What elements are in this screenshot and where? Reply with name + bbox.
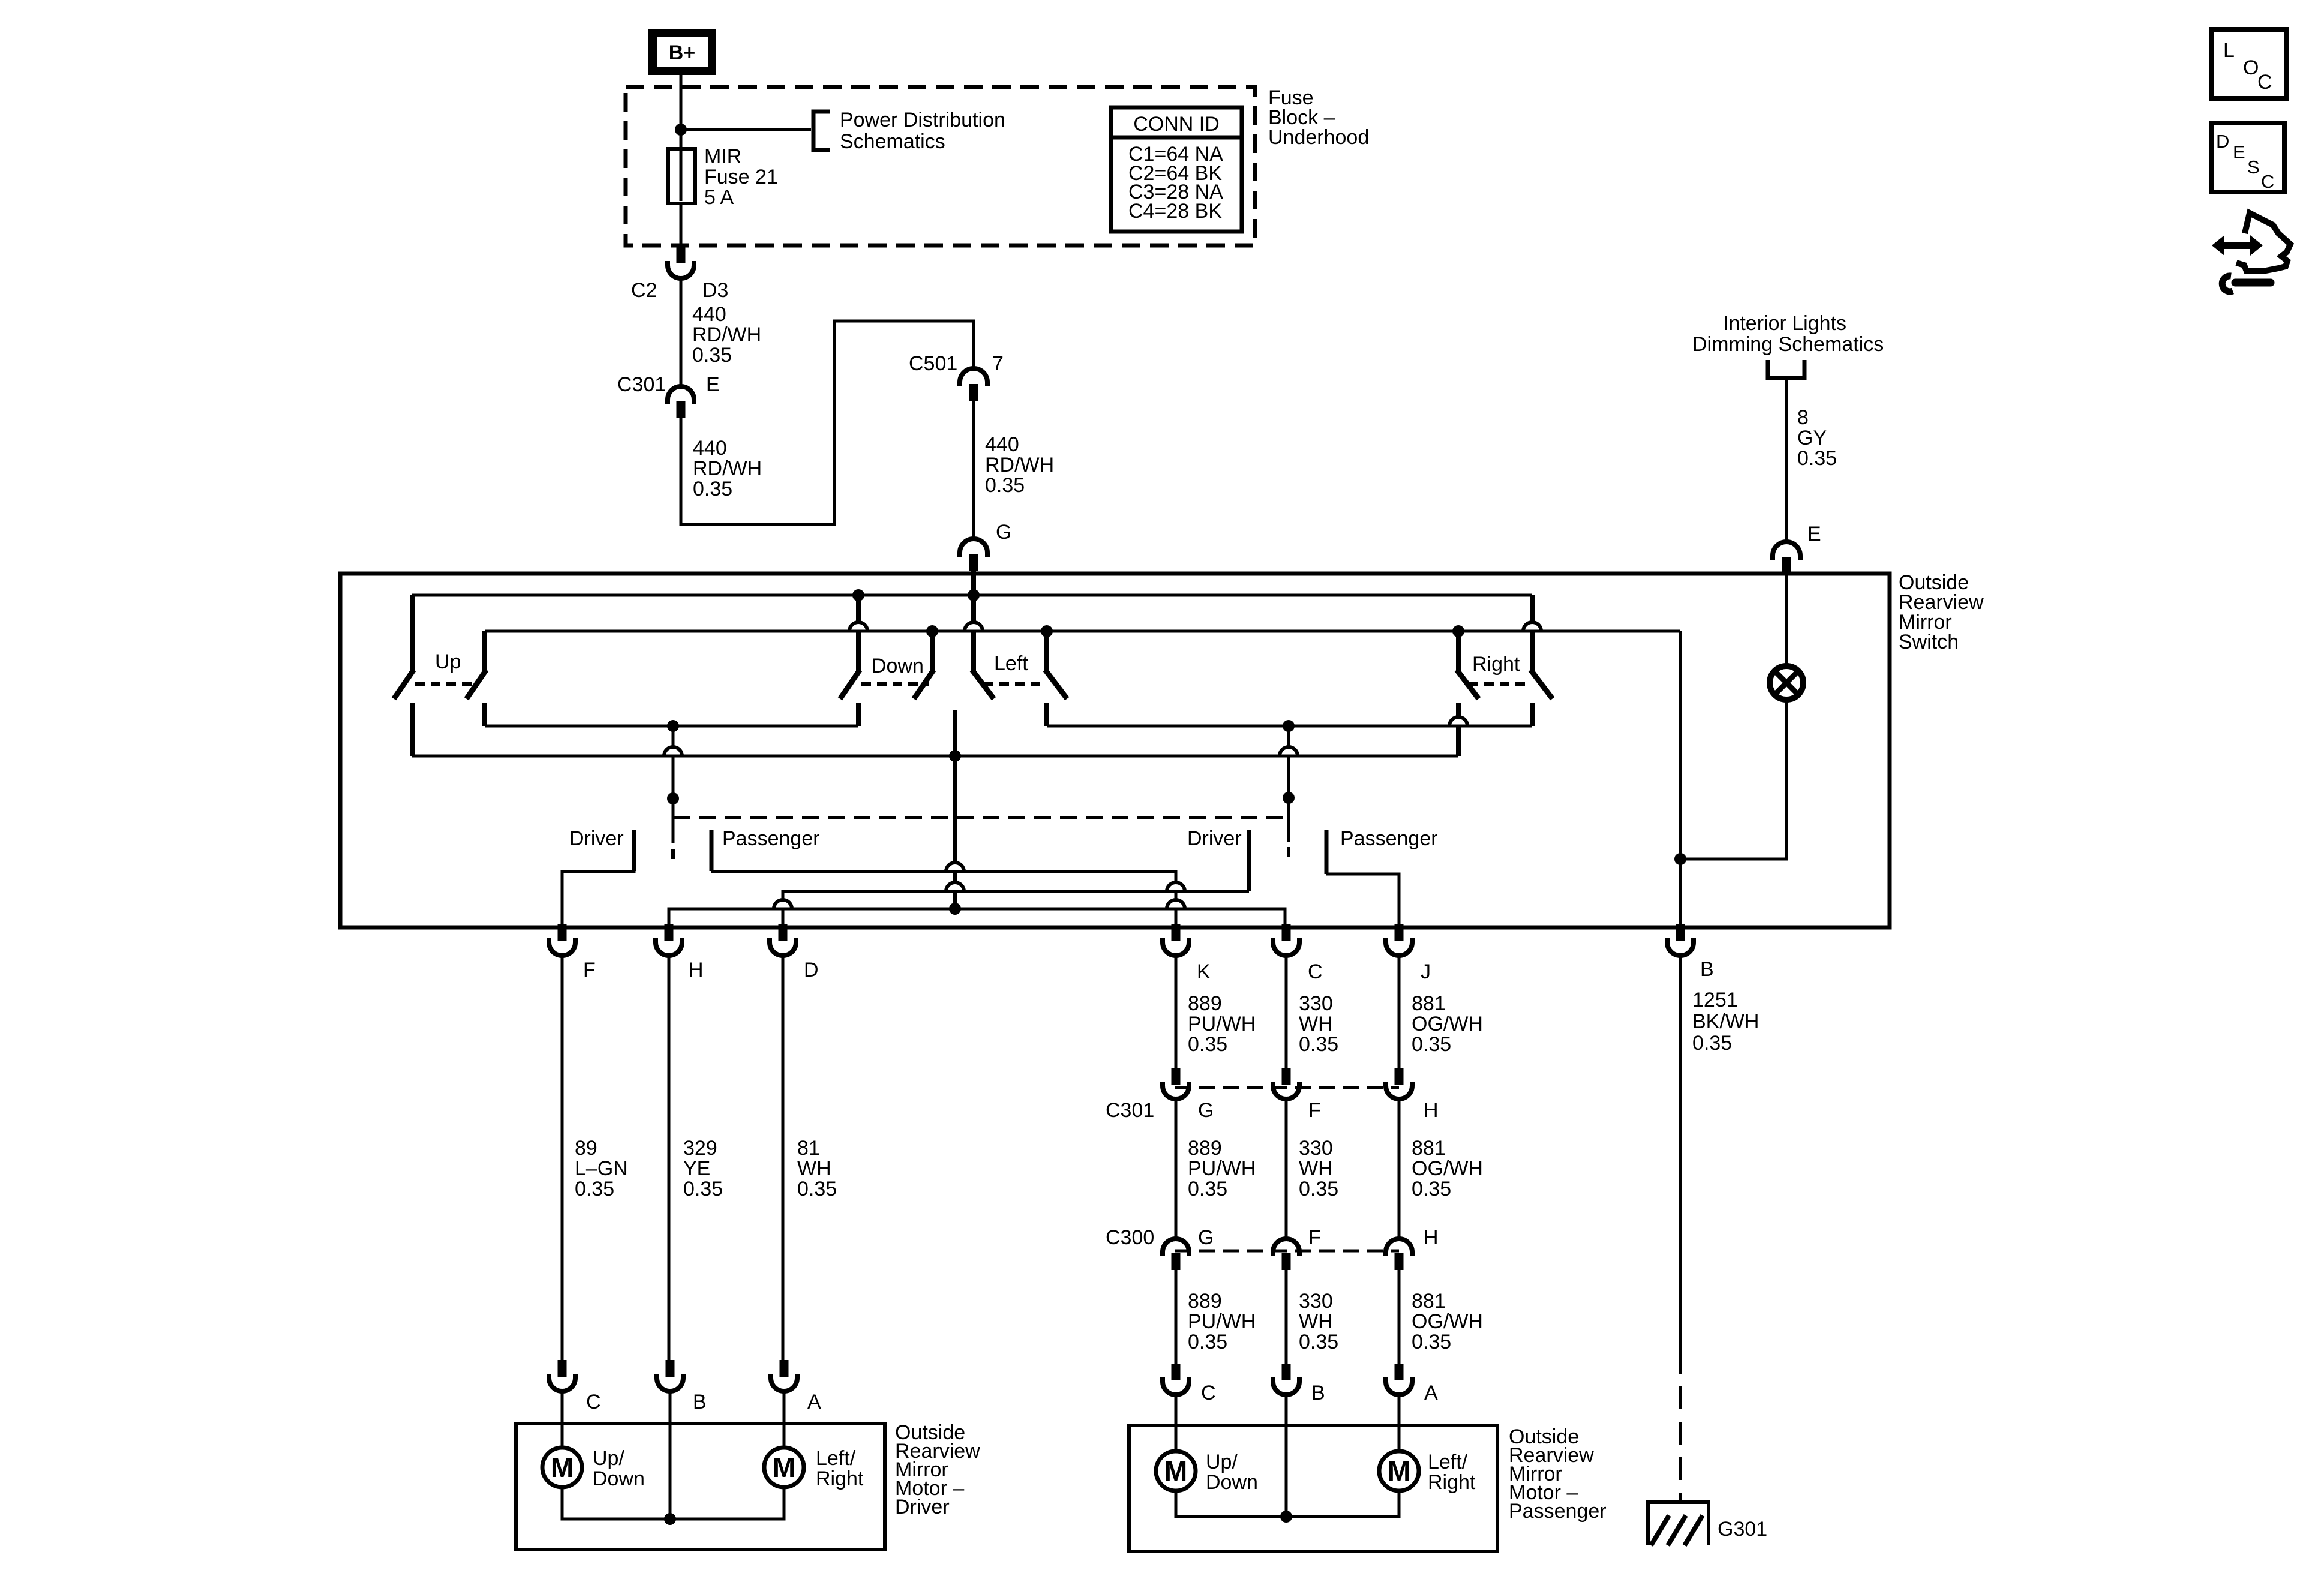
selector wiper up/down <box>664 726 682 859</box>
wire 89 L-GN (F to driver motor C) <box>561 956 564 1361</box>
svg-text:A: A <box>1424 1382 1438 1404</box>
svg-text:Right: Right <box>1472 653 1520 676</box>
node rail 5 to selector <box>1283 720 1295 732</box>
svg-text:F: F <box>1308 1099 1321 1122</box>
svg-text:0.35: 0.35 <box>1412 1331 1451 1353</box>
wire 1251 BK/WH dashed to G301 <box>1679 1351 1682 1501</box>
svg-text:E: E <box>706 373 720 396</box>
icon wrench <box>2222 276 2271 292</box>
node feed on rail 1 <box>968 589 980 601</box>
wire Driver contact (left/right) to D <box>783 830 1249 900</box>
svg-text:440: 440 <box>985 433 1019 456</box>
svg-text:S: S <box>2247 157 2260 178</box>
svg-text:C2: C2 <box>631 279 657 302</box>
node rail 3 to selector <box>667 720 679 732</box>
wire K drop <box>1167 882 1185 927</box>
label Passenger (up/down) <box>722 827 820 850</box>
label wire 440 RD/WH 0.35 (lower left) <box>693 437 762 500</box>
svg-text:881: 881 <box>1412 992 1446 1015</box>
svg-text:PU/WH: PU/WH <box>1188 1013 1256 1035</box>
switch Right left pole <box>1449 631 1477 756</box>
label pin G <box>996 521 1011 544</box>
svg-text:G301: G301 <box>1718 1518 1767 1541</box>
label Up <box>435 650 461 673</box>
svg-text:0.35: 0.35 <box>693 478 732 500</box>
svg-text:G: G <box>996 521 1011 544</box>
label wire 81 WH 0.35 <box>797 1137 837 1200</box>
connector driver motor pin B <box>657 1360 707 1413</box>
svg-text:0.35: 0.35 <box>1188 1178 1227 1200</box>
svg-text:8: 8 <box>1797 406 1809 429</box>
wire passenger motors common <box>1176 1491 1399 1517</box>
label Right <box>1472 653 1520 676</box>
label pin 7 <box>992 352 1004 375</box>
label Outside Rearview Mirror Motor - Passenger <box>1509 1425 1607 1523</box>
svg-text:Right: Right <box>816 1467 864 1490</box>
label Down <box>872 655 924 677</box>
svg-text:C: C <box>586 1391 601 1413</box>
label wire 330 WH 0.35 (1) <box>1299 992 1338 1056</box>
svg-text:M: M <box>1164 1455 1187 1487</box>
label wire 881 OG/WH 0.35 (1) <box>1412 992 1483 1056</box>
label wire 889 PU/WH 0.35 (1) <box>1188 992 1256 1056</box>
contact Passenger (left/right) <box>1325 830 1329 874</box>
svg-text:C: C <box>2261 171 2274 192</box>
wire C into driver motor <box>561 1391 564 1448</box>
svg-text:OG/WH: OG/WH <box>1412 1013 1483 1035</box>
svg-text:C301: C301 <box>617 373 666 396</box>
connector C301 pin G <box>1163 1068 1189 1099</box>
wire junction to Power Distribution bracket <box>681 128 811 131</box>
svg-text:0.35: 0.35 <box>1299 1033 1338 1056</box>
node rail 2 to Left switch <box>1041 625 1053 637</box>
connector C300 pin G <box>1163 1239 1189 1270</box>
bus rail 1 (B+ feed) <box>412 594 1532 597</box>
svg-text:H: H <box>1424 1099 1439 1122</box>
connector C301 pin H <box>1386 1068 1412 1099</box>
svg-text:Up/: Up/ <box>1206 1451 1238 1473</box>
svg-text:1251: 1251 <box>1692 989 1738 1011</box>
wire common to H and C <box>669 909 1285 927</box>
svg-text:Fuse 21: Fuse 21 <box>704 166 778 188</box>
wire 330 WH (C301 to C300) <box>1285 1099 1288 1239</box>
svg-text:E: E <box>1807 523 1821 545</box>
label pin E <box>706 373 720 396</box>
wire 329 YE (H to driver motor B) <box>668 956 671 1361</box>
connector C501 pin 7 <box>960 368 987 401</box>
svg-text:440: 440 <box>693 437 727 460</box>
wire lamp to B line <box>1680 698 1786 859</box>
switch Down right pole <box>915 631 932 697</box>
wire 881 OG/WH (C300 to passenger motor) <box>1398 1270 1401 1364</box>
svg-text:Left: Left <box>994 652 1028 675</box>
connector pin D <box>770 924 819 981</box>
wire fuse to C2 <box>680 203 683 248</box>
connector C300 pin H <box>1386 1239 1412 1270</box>
label wire 440 RD/WH 0.35 (to G) <box>985 433 1054 497</box>
node junction below B+ <box>675 124 687 136</box>
mechanical link Right <box>1469 682 1529 686</box>
label wire 1251 BK/WH 0.35 <box>1692 989 1759 1055</box>
svg-text:GY: GY <box>1797 427 1827 449</box>
wire 8 GY to E <box>1785 378 1788 542</box>
label Left <box>994 652 1028 675</box>
label Outside Rearview Mirror Motor - Driver <box>895 1421 980 1518</box>
svg-text:B+: B+ <box>669 41 695 64</box>
bus rail 3 up/down output <box>485 725 858 728</box>
svg-text:Right: Right <box>1428 1471 1476 1494</box>
fuse block dashed outline (Fuse Block - Underhood) <box>626 87 1255 245</box>
svg-text:Passenger: Passenger <box>1340 827 1438 850</box>
svg-text:B: B <box>1700 958 1714 981</box>
svg-text:M: M <box>773 1452 795 1483</box>
wire E feed to lamp <box>1785 574 1788 667</box>
label D3 <box>702 279 728 302</box>
node rail 4 to common tap <box>949 750 961 762</box>
label wire 881 OG/WH 0.35 (3) <box>1412 1290 1483 1353</box>
label Power Distribution Schematics <box>840 109 1005 153</box>
connector pin C <box>1273 924 1323 983</box>
svg-text:Driver: Driver <box>1187 827 1242 850</box>
outside rearview mirror switch box <box>340 574 1890 927</box>
svg-text:Passenger: Passenger <box>722 827 820 850</box>
node passenger common junction <box>1280 1511 1292 1523</box>
wire 330 WH (C to C301) <box>1285 956 1288 1069</box>
connector pin G into switch <box>960 539 987 571</box>
fuse MIR Fuse 21 5 A <box>668 149 695 203</box>
svg-text:D: D <box>2216 131 2229 152</box>
svg-text:330: 330 <box>1299 1137 1333 1160</box>
svg-text:CONN ID: CONN ID <box>1133 113 1220 136</box>
wire B into driver motor <box>669 1391 672 1519</box>
connector passenger motor pin C <box>1163 1364 1216 1404</box>
connector passenger motor pin A <box>1386 1364 1438 1404</box>
svg-text:Driver: Driver <box>569 827 624 850</box>
wire driver motors common <box>562 1487 784 1519</box>
motor M left/right (driver) <box>764 1448 804 1487</box>
lamp illumination (circle-X) <box>1770 666 1803 700</box>
label wire 8 GY 0.35 <box>1797 406 1837 470</box>
switch Left right pole <box>1047 631 1065 726</box>
connector pin F <box>549 924 596 981</box>
svg-text:E: E <box>2233 142 2245 163</box>
wire B+ to fuse block <box>680 75 683 128</box>
outside rearview mirror motor passenger box <box>1129 1425 1497 1551</box>
svg-text:L: L <box>2223 39 2235 62</box>
icon component locator arrow <box>2212 213 2290 271</box>
mechanical link Up <box>415 682 472 686</box>
svg-text:C: C <box>2257 71 2272 94</box>
svg-text:C: C <box>1201 1382 1216 1404</box>
svg-text:F: F <box>583 959 596 981</box>
svg-text:C4=28 BK: C4=28 BK <box>1128 200 1222 223</box>
svg-text:O: O <box>2243 56 2259 79</box>
wire Passenger contact to K <box>711 872 1176 883</box>
node rail 1 to Down switch <box>852 589 864 601</box>
wire rail 2 down to B <box>1679 631 1682 927</box>
switch Up right pole <box>468 631 485 726</box>
svg-text:C301: C301 <box>1106 1099 1154 1122</box>
power symbol B+ box <box>653 33 712 71</box>
svg-text:7: 7 <box>992 352 1004 375</box>
svg-text:889: 889 <box>1188 1137 1222 1160</box>
label C501 <box>909 352 957 375</box>
connector pin H <box>656 924 704 981</box>
label Fuse Block - Underhood <box>1268 86 1369 149</box>
svg-text:C: C <box>1308 960 1323 983</box>
wire G feed into box <box>971 571 976 595</box>
switch Right right pole <box>1523 595 1551 726</box>
label G301 <box>1718 1518 1767 1541</box>
contact Passenger (up/down) <box>710 830 714 871</box>
label Left/Right (driver) <box>816 1447 864 1490</box>
connector pin J <box>1386 924 1431 983</box>
svg-text:H: H <box>1424 1226 1439 1249</box>
connector passenger motor pin B <box>1273 1364 1325 1404</box>
label C301 <box>617 373 666 396</box>
label wire 889 PU/WH 0.35 (3) <box>1188 1290 1256 1353</box>
wire 881 OG/WH (J to C301) <box>1398 956 1401 1069</box>
svg-text:0.35: 0.35 <box>1797 447 1837 470</box>
mechanical link selector (dashed) <box>673 816 1289 819</box>
connector C301 pin E <box>668 386 694 418</box>
connector C301 pin F <box>1273 1068 1299 1099</box>
svg-text:0.35: 0.35 <box>1188 1331 1227 1353</box>
label wire 89 L-GN 0.35 <box>575 1137 628 1200</box>
svg-text:0.35: 0.35 <box>797 1178 837 1200</box>
svg-text:81: 81 <box>797 1137 820 1160</box>
label Interior Lights Dimming Schematics <box>1692 312 1884 356</box>
wire 330 WH (C300 to passenger motor) <box>1285 1270 1288 1364</box>
svg-text:Left/: Left/ <box>1428 1451 1468 1473</box>
svg-text:0.35: 0.35 <box>1299 1331 1338 1353</box>
svg-text:PU/WH: PU/WH <box>1188 1157 1256 1180</box>
connector pin E into switch <box>1773 542 1800 574</box>
svg-text:D: D <box>804 959 819 981</box>
svg-text:Up: Up <box>435 650 461 673</box>
svg-text:MIR: MIR <box>704 145 741 168</box>
svg-text:G: G <box>1198 1099 1214 1122</box>
svg-text:WH: WH <box>1299 1013 1333 1035</box>
svg-text:OG/WH: OG/WH <box>1412 1157 1483 1180</box>
svg-text:OG/WH: OG/WH <box>1412 1310 1483 1333</box>
switch Down left pole <box>842 595 867 726</box>
svg-text:A: A <box>807 1391 821 1413</box>
svg-text:329: 329 <box>683 1137 717 1160</box>
mechanical link Left <box>984 682 1044 686</box>
wire 881 OG/WH (C301 to C300) <box>1398 1099 1401 1239</box>
svg-text:RD/WH: RD/WH <box>985 454 1054 476</box>
svg-text:Passenger: Passenger <box>1509 1500 1607 1523</box>
wire D drop <box>774 900 792 927</box>
label Up/Down (driver) <box>593 1447 645 1490</box>
label C301 row <box>1106 1099 1439 1122</box>
svg-text:RD/WH: RD/WH <box>693 457 762 480</box>
wire 889 PU/WH (C301 to C300) <box>1175 1099 1178 1239</box>
connector row C301 (dashed) <box>1175 1086 1399 1089</box>
svg-text:881: 881 <box>1412 1137 1446 1160</box>
svg-text:Interior Lights: Interior Lights <box>1723 312 1846 335</box>
svg-text:H: H <box>689 959 704 981</box>
svg-text:0.35: 0.35 <box>985 474 1025 497</box>
bus rail 4 common <box>412 755 1458 758</box>
label Driver (up/down) <box>569 827 624 850</box>
node driver common junction <box>664 1513 676 1525</box>
label wire 889 PU/WH 0.35 (2) <box>1188 1137 1256 1200</box>
label wire 330 WH 0.35 (3) <box>1299 1290 1338 1353</box>
svg-text:WH: WH <box>1299 1157 1333 1180</box>
svg-text:RD/WH: RD/WH <box>692 323 761 346</box>
svg-text:Left/: Left/ <box>816 1447 856 1470</box>
svg-text:330: 330 <box>1299 992 1333 1015</box>
wire Passenger contact to J <box>1326 874 1399 927</box>
svg-text:0.35: 0.35 <box>1692 1032 1732 1055</box>
svg-text:G: G <box>1198 1226 1214 1249</box>
wire junction to fuse MIR <box>680 130 683 151</box>
svg-text:0.35: 0.35 <box>683 1178 723 1200</box>
mechanical link Down <box>861 682 929 686</box>
svg-text:Down: Down <box>872 655 924 677</box>
svg-text:B: B <box>1311 1382 1325 1404</box>
ground G301 <box>1646 1502 1710 1545</box>
svg-text:440: 440 <box>692 303 726 326</box>
svg-text:J: J <box>1421 960 1431 983</box>
svg-text:Driver: Driver <box>895 1496 950 1518</box>
node rail 2 to Right switch <box>1452 625 1464 637</box>
svg-text:B: B <box>693 1391 707 1413</box>
label wire 881 OG/WH 0.35 (2) <box>1412 1137 1483 1200</box>
wire 440 RD/WH C301-E to C501 (jog) <box>681 321 974 524</box>
label wire 330 WH 0.35 (2) <box>1299 1137 1338 1200</box>
label wire 440 RD/WH 0.35 (upper) <box>692 303 761 367</box>
svg-text:889: 889 <box>1188 1290 1222 1313</box>
svg-text:330: 330 <box>1299 1290 1333 1313</box>
wire 440 RD/WH C2 to C301 <box>680 278 683 388</box>
svg-text:M: M <box>1388 1455 1410 1487</box>
outside rearview mirror motor driver box <box>516 1424 885 1550</box>
svg-text:Down: Down <box>593 1467 645 1490</box>
wire A into passenger motor <box>1398 1395 1401 1451</box>
icon DESC box <box>2211 123 2284 192</box>
connector driver motor pin A <box>771 1360 821 1413</box>
wire B into passenger motor <box>1285 1395 1288 1517</box>
motor M up/down (passenger) <box>1156 1451 1196 1491</box>
motor M left/right (passenger) <box>1379 1451 1419 1491</box>
label C300 row <box>1106 1226 1439 1249</box>
label C2 <box>631 279 657 302</box>
connector pin K <box>1163 924 1211 983</box>
svg-text:WH: WH <box>1299 1310 1333 1333</box>
svg-text:Underhood: Underhood <box>1268 126 1369 149</box>
svg-text:Switch: Switch <box>1899 631 1959 653</box>
switch Up left pole <box>395 595 412 756</box>
wire A into driver motor <box>783 1391 786 1448</box>
svg-text:D3: D3 <box>702 279 728 302</box>
connector pin B <box>1667 924 1714 981</box>
contact Driver (up/down) <box>632 830 636 871</box>
wire 81 WH (D to driver motor A) <box>782 956 785 1361</box>
svg-text:K: K <box>1197 960 1211 983</box>
motor M up/down (driver) <box>542 1448 582 1487</box>
label Passenger (left/right) <box>1340 827 1438 850</box>
svg-text:881: 881 <box>1412 1290 1446 1313</box>
svg-text:0.35: 0.35 <box>1188 1033 1227 1056</box>
label pin E <box>1807 523 1821 545</box>
connector driver motor pin C <box>549 1360 601 1413</box>
svg-text:89: 89 <box>575 1137 597 1160</box>
svg-text:WH: WH <box>797 1157 831 1180</box>
label Left/Right (passenger) <box>1428 1451 1476 1494</box>
connector row C300 (dashed) <box>1175 1250 1399 1253</box>
svg-text:Down: Down <box>1206 1471 1258 1494</box>
svg-text:C300: C300 <box>1106 1226 1154 1249</box>
svg-text:889: 889 <box>1188 992 1222 1015</box>
label Outside Rearview Mirror Switch <box>1899 571 1984 653</box>
svg-text:0.35: 0.35 <box>692 344 732 367</box>
wire C into passenger motor <box>1175 1395 1178 1451</box>
svg-text:PU/WH: PU/WH <box>1188 1310 1256 1333</box>
label Driver (left/right) <box>1187 827 1242 850</box>
svg-text:L–GN: L–GN <box>575 1157 628 1180</box>
svg-text:F: F <box>1308 1226 1321 1249</box>
CONN ID table <box>1111 107 1242 232</box>
wire 440 RD/WH C501 to G <box>972 401 975 539</box>
label MIR Fuse 21 5 A <box>704 145 778 209</box>
switch Left left pole (feed) <box>965 595 992 697</box>
node rail 2 to Down switch <box>926 625 938 637</box>
svg-text:YE: YE <box>683 1157 710 1180</box>
svg-text:Power Distribution: Power Distribution <box>840 109 1005 131</box>
node lamp return on B line <box>1674 853 1686 865</box>
bus rail 5 left/right output <box>1047 725 1532 728</box>
svg-text:5 A: 5 A <box>704 186 734 209</box>
wire 889 PU/WH (C300 to passenger motor) <box>1175 1270 1178 1364</box>
connector C2 pin D3 <box>668 247 694 278</box>
svg-text:Up/: Up/ <box>593 1447 624 1470</box>
wire Driver contact to F <box>562 872 636 927</box>
svg-text:0.35: 0.35 <box>1412 1033 1451 1056</box>
connector C300 pin F <box>1273 1239 1299 1270</box>
svg-text:M: M <box>551 1452 574 1483</box>
svg-text:Schematics: Schematics <box>840 130 945 153</box>
svg-text:C501: C501 <box>909 352 957 375</box>
icon LOC box <box>2211 29 2287 98</box>
wire common tap <box>946 710 964 915</box>
selector wiper left/right <box>1280 726 1298 857</box>
wire 1251 BK/WH (B to ground) <box>1679 956 1682 1351</box>
label Up/Down (passenger) <box>1206 1451 1258 1494</box>
label wire 329 YE 0.35 <box>683 1137 723 1200</box>
svg-text:Dimming Schematics: Dimming Schematics <box>1692 333 1884 356</box>
svg-text:0.35: 0.35 <box>1299 1178 1338 1200</box>
off-page bracket Power Distribution Schematics <box>813 112 830 150</box>
off-page bracket Interior Lights <box>1768 360 1804 378</box>
svg-text:0.35: 0.35 <box>575 1178 614 1200</box>
wire 889 PU/WH (K to C301) <box>1175 956 1178 1069</box>
svg-text:0.35: 0.35 <box>1412 1178 1451 1200</box>
svg-text:BK/WH: BK/WH <box>1692 1010 1759 1033</box>
bus rail 2 (B+ feed) <box>485 630 1680 633</box>
